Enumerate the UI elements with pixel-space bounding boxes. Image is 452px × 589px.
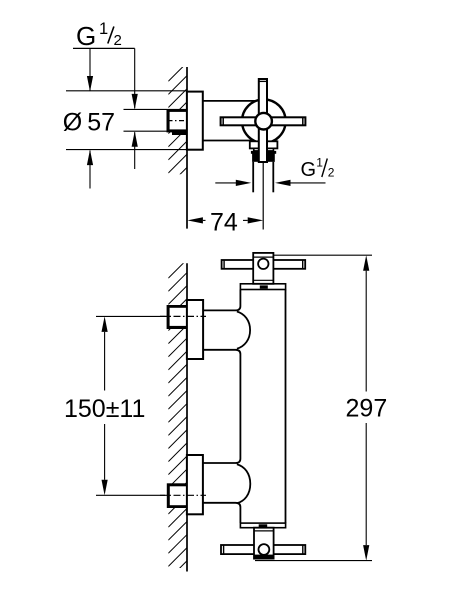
extension line 297 top (273, 254, 372, 256)
arrow up to nipple bottom (134, 132, 136, 169)
lower union centerline (dash-dot) (160, 494, 206, 496)
body right edge (285, 290, 287, 524)
nipple / wall union (side view) (167, 109, 188, 132)
svg-text:1: 1 (316, 155, 323, 169)
svg-text:2: 2 (114, 32, 122, 49)
extension line flange top (66, 90, 187, 92)
upper union centerline (dash-dot) (160, 315, 206, 317)
body left outline with union inlets (203, 290, 241, 524)
lower union nut bulge (237, 464, 250, 503)
extension line flange bottom (66, 149, 187, 151)
svg-text:G: G (76, 21, 96, 51)
wall (side view) (186, 67, 188, 229)
upper union nut bulge (237, 312, 250, 349)
handle horizontal arm (side view) (221, 117, 306, 125)
arrow up to flange bottom (89, 151, 91, 189)
svg-text:297: 297 (346, 395, 388, 423)
flange / escutcheon (side view) (187, 92, 203, 150)
svg-text:150±11: 150±11 (64, 395, 145, 423)
upper flange / escutcheon (187, 300, 203, 359)
body bottom cap (240, 523, 285, 528)
extension line 297 bottom (255, 560, 372, 562)
top set screw (260, 285, 268, 288)
bottom set screw (259, 524, 268, 527)
svg-text:1: 1 (99, 20, 108, 38)
body top cap (240, 284, 285, 290)
bottom hub hole (259, 544, 270, 555)
leader arrow to flange top (89, 48, 91, 90)
nipple centerline (168, 120, 187, 122)
outlet pipe stub (254, 162, 272, 192)
top hub hole (258, 259, 268, 269)
valve body lower section B (254, 148, 274, 151)
valve body circle (242, 99, 286, 143)
svg-text:74: 74 (210, 208, 238, 236)
top handle hub (253, 253, 273, 284)
extension line lower union centerline (96, 494, 165, 496)
valve centerline (262, 162, 264, 230)
svg-text:Ø 57: Ø 57 (63, 108, 115, 136)
svg-text:G: G (301, 159, 317, 181)
wall hatching (side view) (168, 62, 187, 212)
extension line nipple bottom (124, 130, 167, 132)
handle hub circle (255, 113, 272, 130)
pipe bottom edge (203, 140, 260, 142)
svg-text:2: 2 (328, 165, 335, 179)
valve body lower section A (250, 141, 278, 148)
lower flange / escutcheon (187, 455, 203, 514)
bottom handle hub (254, 528, 274, 559)
top handle bar (222, 260, 306, 269)
lower wall nipple (front view) (167, 483, 187, 508)
bottom handle bar (221, 545, 305, 554)
handle vertical bar (side view) (259, 79, 267, 162)
valve nut / thread (dark) (251, 151, 276, 154)
extension line nipple top (124, 108, 167, 110)
dimension 150±11 (104, 332, 106, 391)
upper wall nipple (front view) (167, 305, 188, 329)
dimension 74 (203, 219, 206, 221)
pipe top edge (203, 100, 260, 102)
extension line upper union centerline (96, 315, 165, 317)
wall (front view) (186, 263, 188, 571)
leader arrow to nipple top (134, 48, 136, 108)
dimension 297 (365, 271, 367, 392)
dimension G 1/2 (outlet) arrows (215, 182, 236, 184)
wall hatching (front view) (168, 259, 187, 589)
